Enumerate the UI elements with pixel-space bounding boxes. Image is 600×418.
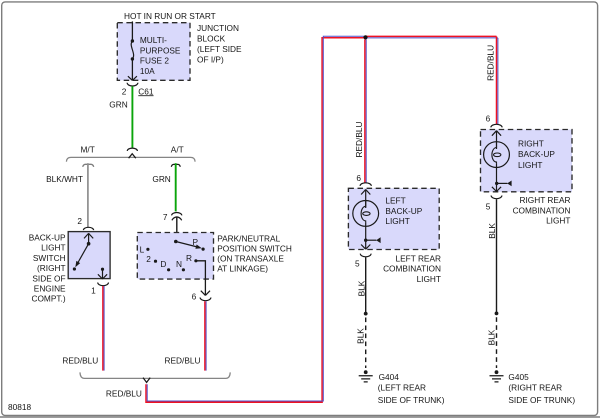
right lamp wire below bulb: [496, 163, 498, 191]
wire RED/BLU from switch pin1 (red): [102, 286, 104, 371]
svg-text:GRN: GRN: [152, 174, 170, 184]
svg-text:10A: 10A: [140, 66, 155, 76]
wire RED/BLU from P/N pin6 (blue stripe): [205, 301, 207, 370]
svg-text:R: R: [186, 253, 192, 263]
back-up light switch box: [68, 232, 110, 279]
contact dot L: [146, 248, 149, 251]
wire BLK right dashed: [496, 317, 498, 368]
right lamp case ground triangle: [507, 181, 511, 187]
svg-text:AT LINKAGE): AT LINKAGE): [217, 264, 268, 274]
wire RED/BLU left drop (blue stripe): [365, 40, 367, 184]
pin 7 arrow up: [172, 217, 182, 220]
bottom gray band: [0, 416, 600, 418]
svg-text:RIGHT: RIGHT: [518, 139, 544, 149]
connector cap above split: [127, 148, 137, 151]
svg-text:PURPOSE: PURPOSE: [140, 45, 181, 55]
svg-text:SIDE OF: SIDE OF: [32, 273, 65, 283]
park/neutral position switch box (dashed): [137, 233, 213, 280]
fuse terminal dot bottom: [131, 57, 134, 60]
left lamp entry arrow up: [361, 190, 370, 195]
junction dot left BLK: [364, 312, 368, 316]
svg-text:HOT IN RUN OR START: HOT IN RUN OR START: [124, 11, 216, 21]
right back-up light box (dashed): [481, 130, 573, 192]
wire RED/BLU right drop (blue stripe): [497, 38, 499, 125]
right lamp case dot: [495, 182, 498, 185]
right lamp entry arrow up: [492, 131, 501, 136]
junction block box (dashed): [117, 23, 190, 81]
svg-text:RED/BLU: RED/BLU: [165, 355, 201, 365]
switch pivot dot: [87, 242, 91, 246]
wire BLK right solid: [496, 199, 498, 313]
connector C61 cup: [127, 83, 138, 86]
connector cap at pin 7: [172, 212, 182, 215]
svg-text:BLK: BLK: [487, 223, 497, 239]
connector cup below pin 6: [200, 298, 211, 301]
connector cup below switch pin 1: [98, 283, 109, 286]
svg-text:RED/BLU: RED/BLU: [62, 355, 98, 365]
svg-text:LIGHT: LIGHT: [385, 216, 409, 226]
P/N pivot dot: [174, 240, 178, 244]
svg-text:LEFT REAR: LEFT REAR: [396, 253, 442, 263]
P/N blade arrowhead: [195, 245, 201, 249]
svg-text:SIDE OF TRUNK): SIDE OF TRUNK): [378, 395, 445, 405]
connector cup below left lamp: [360, 254, 371, 257]
svg-text:BACK-UP: BACK-UP: [385, 206, 422, 216]
svg-text:LEFT: LEFT: [385, 195, 405, 205]
svg-text:2: 2: [122, 86, 127, 96]
svg-text:LIGHT: LIGHT: [546, 216, 570, 226]
left bulb filament loop: [361, 201, 366, 222]
wire RED/BLU trunk run (blue stripe): [147, 36, 498, 401]
join brace center V: [143, 378, 150, 383]
svg-text:G405: G405: [508, 372, 529, 382]
fuse F2 wire top: [131, 21, 133, 40]
switch output stub: [102, 269, 104, 279]
A/T branch arrow up: [171, 164, 180, 166]
switch pin2 arrow up inside box: [84, 233, 93, 238]
svg-text:(RIGHT: (RIGHT: [37, 263, 66, 273]
svg-text:BACK-UP: BACK-UP: [518, 149, 555, 159]
svg-text:BACK-UP: BACK-UP: [29, 233, 66, 243]
wire from R contact: [196, 261, 206, 295]
left lamp exit arrow down: [361, 245, 370, 250]
svg-text:1: 1: [91, 285, 96, 295]
P/N blade toward P: [176, 242, 198, 248]
svg-text:C61: C61: [138, 86, 154, 96]
connector cap left lamp pin 6: [360, 183, 371, 186]
svg-text:COMPT.): COMPT.): [31, 294, 65, 304]
svg-text:BLK: BLK: [356, 280, 366, 296]
svg-text:(LEFT SIDE: (LEFT SIDE: [197, 44, 242, 54]
wire BLK left dashed: [365, 318, 367, 369]
M/T branch arrow up: [83, 164, 94, 167]
svg-text:FUSE 2: FUSE 2: [140, 56, 169, 66]
switch output arrow down: [98, 274, 107, 279]
left bulb filament ellipse: [363, 212, 370, 216]
svg-text:OF I/P): OF I/P): [197, 55, 224, 65]
switch lower contact dot: [73, 267, 76, 270]
wire RED/BLU from P/N pin6 (red): [204, 301, 206, 370]
svg-text:SIDE OF TRUNK): SIDE OF TRUNK): [508, 395, 575, 405]
svg-text:N: N: [176, 259, 182, 269]
svg-text:P: P: [192, 237, 198, 247]
ground G404 symbol: [364, 370, 368, 374]
fuse terminal dot top: [131, 39, 134, 42]
svg-text:(ON TRANSAXLE: (ON TRANSAXLE: [217, 254, 284, 264]
svg-text:2: 2: [146, 254, 151, 264]
right bulb filament ellipse: [494, 153, 501, 157]
right lamp exit arrow down: [492, 187, 501, 192]
svg-text:RIGHT REAR: RIGHT REAR: [519, 195, 570, 205]
wire BLK left solid: [365, 257, 367, 313]
left back-up light box (dashed): [348, 188, 439, 249]
right bulb filament loop: [492, 142, 497, 163]
pin 6 arrow down: [201, 291, 210, 296]
svg-text:ENGINE: ENGINE: [34, 284, 66, 294]
connector cap at switch pin 2: [83, 227, 93, 230]
switch pin2 stub: [88, 233, 90, 243]
switch blade: [78, 244, 89, 263]
svg-text:RED/BLU: RED/BLU: [486, 45, 496, 81]
svg-text:5: 5: [355, 258, 360, 268]
right lamp case ground line: [497, 182, 508, 184]
svg-text:80818: 80818: [8, 402, 31, 412]
svg-text:JUNCTION: JUNCTION: [197, 23, 239, 33]
junction dot right BLK: [495, 312, 499, 316]
svg-text:PARK/NEUTRAL: PARK/NEUTRAL: [217, 234, 280, 244]
svg-text:GRN: GRN: [109, 100, 127, 110]
fuse wire to arrow: [131, 59, 133, 80]
svg-text:(LEFT REAR: (LEFT REAR: [378, 383, 426, 393]
fuse element S-curve: [131, 41, 133, 59]
left lamp wire below bulb: [365, 222, 367, 249]
svg-text:5: 5: [486, 201, 491, 211]
svg-text:BLK/WHT: BLK/WHT: [46, 174, 83, 184]
switch blade arrowhead: [75, 261, 80, 267]
left bulb circle: [353, 201, 379, 227]
wire GRN from fuse: [131, 86, 133, 147]
svg-text:BLK: BLK: [487, 329, 497, 345]
svg-text:LIGHT: LIGHT: [518, 160, 542, 170]
svg-text:BLOCK: BLOCK: [197, 34, 226, 44]
junction dot on trunk run: [363, 35, 367, 39]
switch right contact dot: [101, 268, 104, 271]
contact dot R: [194, 259, 197, 262]
svg-text:BLK: BLK: [356, 328, 366, 344]
contact dot N: [182, 268, 185, 271]
svg-text:MULTI-: MULTI-: [140, 35, 167, 45]
svg-text:6: 6: [356, 173, 361, 183]
left lamp wire to bulb: [365, 189, 367, 208]
svg-text:COMBINATION: COMBINATION: [383, 264, 441, 274]
connector cup below right lamp: [491, 196, 502, 199]
svg-text:M/T: M/T: [81, 144, 95, 154]
split brace center peak: [129, 154, 136, 159]
wire RED/BLU right drop (red): [496, 36, 498, 124]
right bulb circle: [484, 142, 510, 168]
svg-text:COMBINATION: COMBINATION: [513, 205, 571, 215]
ground G405 symbol: [495, 370, 499, 374]
svg-text:(RIGHT REAR: (RIGHT REAR: [508, 383, 562, 393]
svg-text:LIGHT: LIGHT: [41, 243, 65, 253]
left lamp case ground triangle: [376, 237, 380, 243]
contact dot 2: [154, 260, 157, 263]
svg-text:D: D: [160, 259, 166, 269]
split brace: [66, 157, 195, 161]
connector cap right lamp pin 6: [491, 124, 502, 127]
svg-text:SWITCH: SWITCH: [33, 253, 66, 263]
svg-text:A/T: A/T: [171, 144, 184, 154]
svg-text:LIGHT: LIGHT: [417, 274, 441, 284]
wire into park/neutral switch: [176, 217, 178, 242]
svg-text:RED/BLU: RED/BLU: [354, 122, 364, 158]
svg-text:L: L: [140, 245, 145, 255]
wire BLK/WHT (gray): [87, 163, 89, 227]
svg-text:7: 7: [163, 212, 168, 222]
wire RED/BLU left drop (red): [364, 40, 366, 184]
svg-text:2: 2: [77, 216, 82, 226]
svg-text:6: 6: [486, 114, 491, 124]
svg-text:G404: G404: [379, 372, 400, 382]
svg-text:6: 6: [192, 291, 197, 301]
svg-text:RED/BLU: RED/BLU: [106, 388, 142, 398]
contact dot D: [167, 268, 170, 271]
svg-text:POSITION SWITCH: POSITION SWITCH: [217, 244, 292, 254]
left lamp case dot: [364, 239, 367, 242]
wire GRN (A/T): [175, 163, 177, 211]
wire RED/BLU trunk run (red): [146, 36, 497, 402]
fuse output arrow (down): [128, 76, 137, 80]
contact dot P: [202, 248, 205, 251]
left lamp case ground line: [366, 239, 377, 241]
join brace: [80, 372, 230, 378]
wire RED/BLU from switch pin1 (blue stripe): [103, 286, 105, 371]
right lamp wire to bulb: [496, 131, 498, 149]
